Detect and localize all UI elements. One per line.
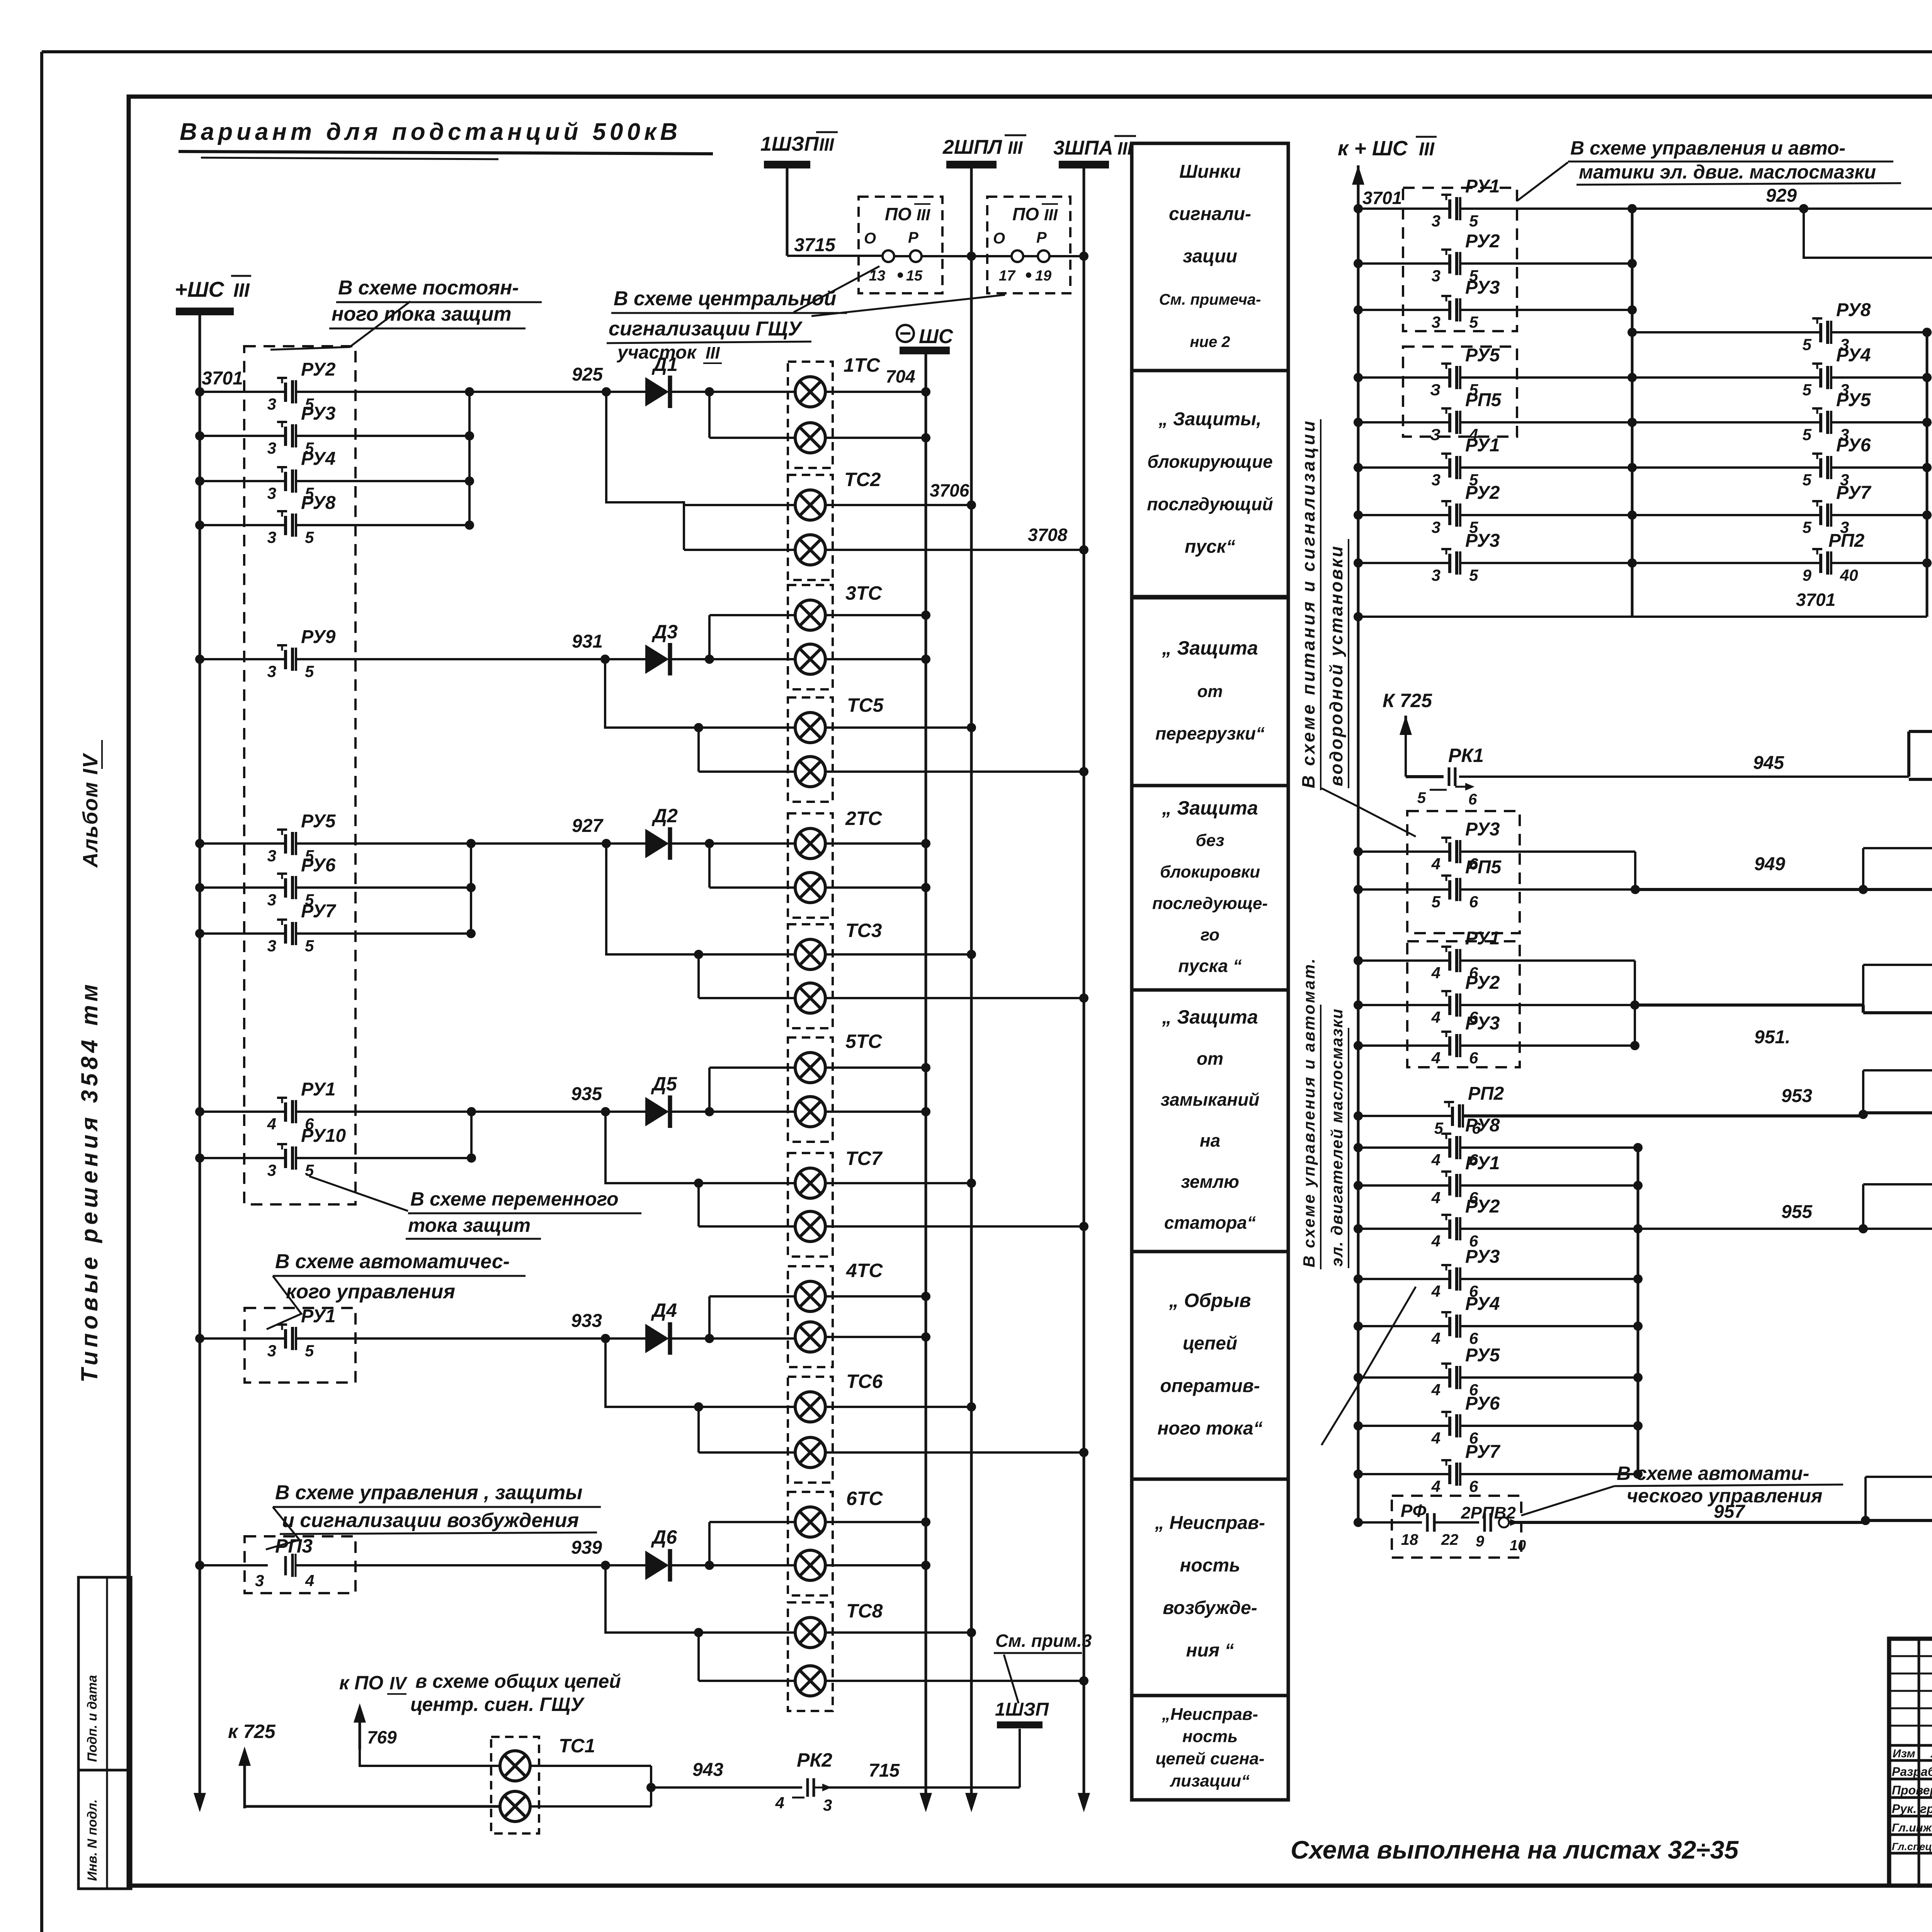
wire 3ТС lamp to bus [825, 614, 926, 616]
svg-text:В схеме управления , защиты: В схеме управления , защиты [275, 1481, 583, 1504]
contact group РУ2/РУ3/РУ4/РУ8 [195, 387, 204, 396]
svg-text:РУ8: РУ8 [1836, 300, 1871, 320]
wire rise to 8ТС upper lamp [1862, 848, 1864, 889]
svg-text:957: 957 [1714, 1502, 1745, 1522]
wire 3708 lamp to bus [825, 549, 1084, 551]
wire 3ТС lamp to bus [825, 658, 926, 660]
svg-text:4: 4 [305, 1571, 314, 1590]
svg-text:блокирующие: блокирующие [1147, 452, 1272, 472]
svg-text:статора“: статора“ [1164, 1213, 1256, 1233]
svg-text:4: 4 [1431, 1381, 1440, 1399]
svg-text:РУ2: РУ2 [1465, 973, 1500, 993]
wire Д3 to lamp 3ТС [669, 658, 796, 660]
svg-text:ШС: ШС [919, 325, 954, 348]
svg-text:РУ5: РУ5 [1465, 1345, 1500, 1366]
signal lamp pair ТС5 [788, 697, 833, 802]
svg-text:17: 17 [999, 268, 1016, 284]
contact РП2 (9-40) [1819, 554, 1822, 573]
svg-text:„ Защита: „ Защита [1162, 797, 1258, 819]
svg-text:от: от [1197, 682, 1223, 701]
legend box: Защита от перегрузки [1132, 598, 1288, 786]
svg-text:935: 935 [571, 1084, 602, 1104]
svg-text:4: 4 [1431, 1232, 1440, 1250]
svg-text:ТС6: ТС6 [846, 1371, 883, 1392]
svg-text:РУ1: РУ1 [1465, 928, 1500, 949]
svg-text:4: 4 [1431, 1282, 1440, 1300]
wire drop to ТС6 lower lamp [697, 1407, 700, 1452]
svg-text:2ТС: 2ТС [845, 808, 882, 829]
svg-text:Р: Р [1036, 229, 1047, 246]
svg-text:Схема выполнена на листах: Схема выполнена на листах 32÷35 [1291, 1835, 1739, 1864]
signal lamp pair ТС1 [491, 1737, 539, 1833]
wire 704 lamp to bus [825, 391, 926, 393]
svg-text:РУ5: РУ5 [1465, 345, 1500, 366]
wire drop to ТС2 lower lamp [683, 505, 685, 550]
svg-text:См. примеча-: См. примеча- [1159, 291, 1261, 308]
svg-text:3ТС: 3ТС [845, 582, 882, 604]
contact РУ8 (5-3) [1632, 331, 1821, 333]
svg-text:III: III [1419, 139, 1435, 160]
wire rise to 12ТС upper lamp [1864, 1477, 1867, 1520]
svg-text:Инв. N подл.: Инв. N подл. [85, 1799, 100, 1881]
svg-text:РП2: РП2 [1828, 531, 1865, 551]
wire after second test block [1023, 255, 1038, 257]
wire rise to 11ТС upper lamp [1862, 1184, 1864, 1229]
svg-text:18: 18 [1401, 1531, 1418, 1548]
svg-text:6: 6 [1469, 1477, 1478, 1495]
svg-text:5: 5 [305, 937, 314, 955]
svg-text:„ Защита: „ Защита [1162, 1006, 1258, 1028]
join vertical (right, to 3701) [1926, 332, 1929, 617]
svg-text:19: 19 [1035, 268, 1051, 284]
wire rise to 6ТС upper lamp [708, 1522, 711, 1565]
test block ПО III (first) [859, 197, 942, 293]
wire 2ТС lamp to bus [825, 842, 926, 845]
node on 2ШПЛ at 3715 [967, 252, 976, 261]
svg-text:3701: 3701 [1796, 590, 1835, 610]
dashed outline: РУ5/РП5 (верх) [1403, 347, 1517, 437]
wire drop to 1ТС lower lamp [708, 392, 711, 438]
wire ТС6 lamp to bus [825, 1406, 971, 1408]
contact РП5 (З-4) [1354, 418, 1363, 427]
svg-text:4: 4 [1431, 1049, 1440, 1067]
svg-text:блокировки: блокировки [1160, 862, 1260, 881]
svg-text:10: 10 [1510, 1537, 1526, 1554]
svg-text:Р: Р [908, 229, 918, 246]
svg-text:951.: 951. [1754, 1027, 1790, 1048]
wire between test blocks [894, 255, 910, 257]
dashed outline: РУ1/РУ2/РУ3 (водород) [1407, 941, 1520, 1067]
signal lamp pair 6ТС [788, 1492, 833, 1595]
svg-text:5: 5 [1803, 335, 1812, 354]
svg-text:В схеме управления и автомат.: В схеме управления и автомат. [1300, 957, 1318, 1267]
leader to РУ5 (водородная) [1321, 788, 1416, 837]
svg-text:ТС3: ТС3 [845, 920, 882, 941]
wire drop to 2ТС lower lamp [708, 844, 711, 888]
svg-text:5: 5 [1469, 212, 1478, 230]
signal lamp pair ТС7 [788, 1153, 833, 1257]
dashed outline: схема постоянного тока защит [244, 346, 355, 1204]
svg-text:5ТС: 5ТС [845, 1031, 882, 1052]
svg-text:Подп. и дата: Подп. и дата [85, 1675, 100, 1762]
svg-text:3: 3 [267, 847, 276, 865]
svg-text:Шинки: Шинки [1179, 162, 1241, 182]
svg-text:1ШЗП: 1ШЗП [995, 1699, 1049, 1720]
wire Д6 to lamp 6ТС [669, 1564, 796, 1566]
svg-text:Д5: Д5 [651, 1073, 677, 1095]
wire 951 [1635, 1003, 1863, 1007]
svg-text:3701: 3701 [1362, 188, 1402, 208]
wire drop to ТС2 (pre-diode) [606, 392, 796, 505]
wire drop to ТС5 lower lamp [697, 728, 700, 772]
wire drop to ТС7 (pre-diode) [605, 1112, 796, 1183]
contact РУ3 (4-6, масло) [1354, 1274, 1363, 1284]
signal lamp pair 5ТС [788, 1037, 833, 1142]
signal lamp pair ТС2 [788, 475, 833, 580]
svg-text:Разраб.: Разраб. [1892, 1765, 1932, 1779]
svg-text:Гл.спец.отд: Гл.спец.отд [1892, 1841, 1932, 1852]
bus -ШС (vertical) [925, 354, 927, 1807]
svg-text:водородной установки: водородной установки [1326, 545, 1346, 786]
svg-text:III: III [1008, 138, 1023, 158]
contact РУ6 (4-6, масло) [1354, 1421, 1363, 1430]
svg-text:939: 939 [571, 1537, 602, 1558]
svg-text:См. прим.3: См. прим.3 [995, 1631, 1092, 1651]
wire rise to 5ТС upper lamp [708, 1068, 711, 1112]
svg-text:III: III [706, 344, 720, 362]
svg-text:РУ6: РУ6 [1465, 1393, 1500, 1414]
join vertical (масло ladder) [1637, 1148, 1639, 1474]
svg-text:6: 6 [1469, 1049, 1478, 1067]
svg-text:В схеме переменного: В схеме переменного [410, 1188, 619, 1210]
wire ТС3 lamp to bus [825, 953, 971, 956]
svg-text:ТС5: ТС5 [847, 694, 884, 716]
svg-text:РК1: РК1 [1448, 745, 1484, 766]
svg-text:З: З [1430, 425, 1440, 444]
legend box: Неисправность цепей сигнализации [1132, 1696, 1288, 1800]
svg-text:3: 3 [267, 395, 276, 413]
signal lamp pair 2ТС [788, 813, 833, 918]
leader to РУ (масло) [1321, 1287, 1416, 1445]
svg-text:ния “: ния “ [1186, 1640, 1234, 1661]
wire drop to ТС5 (pre-diode) [605, 659, 796, 728]
dashed outline: РФ/2РПВ2 [1392, 1496, 1521, 1558]
svg-text:15: 15 [906, 268, 923, 284]
svg-text:4: 4 [1431, 1329, 1440, 1347]
svg-text:3715: 3715 [794, 235, 836, 255]
svg-text:925: 925 [572, 364, 603, 385]
svg-text:40: 40 [1840, 566, 1858, 584]
svg-text:ние 2: ние 2 [1190, 333, 1230, 350]
bus +ШС III (vertical) [199, 315, 201, 1807]
svg-text:РУ10: РУ10 [301, 1126, 346, 1146]
wire ТС8 lamp to bus [825, 1631, 971, 1634]
svg-text:РУ5: РУ5 [301, 811, 336, 832]
svg-text:943: 943 [692, 1760, 723, 1780]
svg-text:955: 955 [1781, 1202, 1813, 1222]
svg-text:ТС1: ТС1 [559, 1735, 595, 1757]
svg-text:О: О [993, 230, 1005, 247]
bus -ШС arrow [925, 1789, 927, 1807]
svg-text:В схеме постоян-: В схеме постоян- [338, 277, 519, 299]
contact РУ3 (прав. верх) [1354, 305, 1363, 315]
svg-text:4: 4 [1431, 1477, 1440, 1495]
contact РУ2 (4-6, водород) [1354, 1000, 1363, 1010]
svg-text:РУ8: РУ8 [301, 493, 336, 513]
sheet outer border [42, 50, 1932, 53]
legend box: Неисправность возбуждения [1132, 1479, 1288, 1696]
svg-text:3: 3 [267, 891, 276, 909]
svg-text:2ШПЛ: 2ШПЛ [942, 136, 1002, 158]
wire 2ТС lamp to bus [825, 886, 926, 889]
contact РУ6 (5-3) [1819, 458, 1822, 478]
contact РП5 (5-6) [1354, 885, 1363, 894]
svg-text:4: 4 [1431, 855, 1440, 873]
wire drop to ТС8 lower lamp [697, 1633, 700, 1681]
svg-text:пуск“: пуск“ [1185, 537, 1235, 557]
contact РУ4 (5-3) [1819, 368, 1822, 388]
svg-text:РУ3: РУ3 [1465, 1247, 1500, 1267]
contact РУ9 [195, 655, 204, 664]
svg-text:РУ4: РУ4 [1465, 1294, 1500, 1314]
svg-text:ПО: ПО [885, 204, 912, 224]
svg-text:сигнали-: сигнали- [1169, 204, 1251, 224]
contact РУ2 (прав. верх) [1354, 259, 1363, 268]
svg-text:3: 3 [267, 937, 276, 955]
svg-text:последующе-: последующе- [1152, 894, 1268, 913]
svg-text:ТС2: ТС2 [844, 469, 881, 490]
svg-text:5: 5 [1417, 789, 1426, 806]
svg-text:к + ШС: к + ШС [1338, 137, 1408, 160]
svg-text:„Неисправ-: „Неисправ- [1162, 1705, 1258, 1724]
svg-text:3: 3 [1432, 518, 1440, 536]
svg-text:927: 927 [572, 816, 604, 836]
svg-text:5: 5 [1469, 313, 1478, 331]
legend box: Шинки сигнализации [1132, 143, 1288, 371]
svg-text:4: 4 [1431, 1429, 1440, 1447]
join vertical (top ladder) [1631, 209, 1634, 617]
svg-text:В схеме питания и сигнализации: В схеме питания и сигнализации [1298, 418, 1318, 788]
svg-text:РУ1: РУ1 [1465, 1153, 1500, 1173]
bus 3ШПА III arrow [1083, 1789, 1085, 1807]
test block ПО III (second) [987, 197, 1070, 293]
svg-text:Рук. гр.: Рук. гр. [1892, 1802, 1932, 1816]
svg-text:929: 929 [1766, 185, 1797, 206]
svg-text:ность: ность [1180, 1555, 1240, 1576]
wire 1ТС lamp to bus [825, 437, 926, 439]
svg-text:РК2: РК2 [797, 1749, 832, 1771]
bus 2ШПЛ III arrow [970, 1789, 973, 1807]
svg-text:РУ4: РУ4 [1836, 345, 1871, 366]
wire rise to 10ТС upper lamp [1862, 1070, 1864, 1114]
wires top-ladder right segments [1831, 376, 1927, 379]
wire ТС7 lamp to bus [825, 1182, 971, 1184]
svg-text:без: без [1196, 831, 1224, 850]
contact РУ1 (4-6, водород) [1354, 956, 1363, 965]
svg-text:возбужде-: возбужде- [1163, 1598, 1257, 1618]
wire rise to 9ТС upper lamp [1862, 965, 1864, 1005]
join РУ3/РП5 [1634, 852, 1636, 889]
svg-text:3: 3 [267, 1342, 276, 1360]
svg-text:III: III [819, 134, 835, 155]
contact РУ7 (4-6, масло) [1354, 1469, 1363, 1479]
svg-text:Д3: Д3 [651, 621, 678, 643]
svg-text:3: 3 [1432, 471, 1440, 489]
svg-text:РУ2: РУ2 [1465, 231, 1500, 252]
svg-text:5: 5 [305, 528, 314, 546]
svg-text:на: на [1200, 1131, 1220, 1151]
svg-text:лизации“: лизации“ [1170, 1771, 1250, 1790]
svg-text:+ШС: +ШС [175, 277, 225, 301]
join РУ1/РУ2/РУ3 (водород) [1634, 961, 1636, 1046]
svg-text:945: 945 [1753, 753, 1784, 773]
contact РУ8 (4-6, масло) [1354, 1143, 1363, 1152]
bus +ШС III arrow [199, 1789, 201, 1807]
wire Д2 to lamp 2ТС [669, 842, 796, 845]
wire 955 [1638, 1228, 1863, 1230]
svg-text:Д1: Д1 [651, 354, 678, 375]
wire 769 to ТС1 upper lamp [360, 1750, 500, 1766]
contact РУ3 (4-6) [1354, 847, 1363, 856]
svg-text:РУ3: РУ3 [1465, 819, 1500, 840]
svg-text:1ТС: 1ТС [844, 354, 880, 376]
svg-text:К 725: К 725 [1383, 690, 1432, 711]
svg-text:Д4: Д4 [651, 1299, 677, 1321]
svg-text:„ Неисправ-: „ Неисправ- [1155, 1513, 1265, 1533]
svg-text:„ Обрыв: „ Обрыв [1168, 1290, 1251, 1311]
wire ТС1 to РК2 [530, 1765, 651, 1767]
svg-text:5: 5 [1803, 471, 1812, 489]
svg-text:3ШПА: 3ШПА [1053, 137, 1113, 159]
wire to ТС1 lower lamp [245, 1805, 500, 1808]
svg-text:5: 5 [1432, 893, 1441, 911]
svg-text:пуска “: пуска “ [1178, 956, 1242, 976]
signal lamp pair 4ТС [788, 1266, 833, 1367]
svg-text:замыканий: замыканий [1161, 1089, 1260, 1109]
wire Д4 to lamp 4ТС [669, 1337, 796, 1340]
contact РУ1 (авт.) [195, 1334, 204, 1343]
wire 5ТС lamp to bus [825, 1111, 926, 1113]
signal lamp pair ТС6 [788, 1377, 833, 1483]
wire drop to ТС4 lower lamp [1804, 209, 1932, 258]
wire 6ТС lamp to bus [825, 1564, 926, 1566]
svg-text:953: 953 [1781, 1086, 1812, 1106]
svg-text:сигнализации ГЩУ: сигнализации ГЩУ [609, 318, 803, 340]
svg-text:землю: землю [1181, 1172, 1239, 1192]
svg-text:4: 4 [1431, 964, 1440, 982]
svg-text:III: III [1044, 206, 1058, 224]
svg-text:РП5: РП5 [1465, 857, 1502, 878]
svg-text:769: 769 [367, 1727, 397, 1747]
wire Д1 to lamp 1ТС [669, 391, 796, 393]
svg-text:ПО: ПО [1012, 204, 1039, 224]
svg-text:РП3: РП3 [275, 1535, 313, 1557]
svg-text:цепей: цепей [1183, 1333, 1237, 1354]
svg-text:5: 5 [1469, 566, 1478, 584]
svg-text:зации: зации [1183, 246, 1237, 267]
wire drop to ТС3 (pre-diode) [606, 844, 796, 954]
svg-text:Типовые решения 3584 тм: Типовые решения 3584 тм [77, 980, 102, 1383]
svg-text:матики эл. двиг. маслосмазки: матики эл. двиг. маслосмазки [1579, 161, 1876, 183]
wire 4ТС lamp to bus [825, 1336, 926, 1338]
svg-text:22: 22 [1441, 1531, 1459, 1548]
contact РУ2 (4-6, масло) [1354, 1224, 1363, 1233]
svg-text:3: 3 [1432, 267, 1440, 285]
margin box: Подп. и дата / Инв. N подл. [78, 1577, 131, 1889]
wire 3706 lamp to bus [825, 504, 971, 506]
contact РП2 (5-6) [1354, 1111, 1363, 1121]
svg-text:ного тока“: ного тока“ [1157, 1418, 1262, 1439]
wire drop to ТС6 (pre-diode) [605, 1338, 796, 1407]
contact РУ5 прав (5-3) [1819, 413, 1822, 432]
svg-text:5: 5 [305, 662, 314, 680]
legend box: Защиты блокирующие последующий пуск [1132, 371, 1288, 597]
signal lamp pair ТС3 [788, 924, 833, 1028]
dashed outline: РУ1 (авт. управления) [245, 1308, 355, 1383]
wire drop to ТС3 lower lamp [697, 954, 700, 998]
wire rise to 3ТС upper lamp [708, 615, 711, 659]
svg-text:4: 4 [1431, 1189, 1440, 1207]
svg-text:4: 4 [267, 1115, 276, 1133]
svg-text:„ Защиты,: „ Защиты, [1158, 409, 1261, 430]
svg-text:IV: IV [389, 1673, 408, 1693]
bus 1ШЗП III drop [786, 168, 789, 256]
svg-text:6: 6 [1468, 791, 1477, 808]
bus 2ШПЛ III (vertical) [970, 168, 973, 1807]
svg-text:РУ7: РУ7 [301, 901, 337, 922]
legend box: Обрыв цепей оперативного тока [1132, 1252, 1288, 1479]
wire rise to 4ТС upper lamp [708, 1296, 711, 1338]
wire to diode Д2 [471, 842, 648, 845]
arrow 769 to ПОIV [359, 1709, 361, 1750]
svg-text:3: 3 [1432, 566, 1440, 584]
contact РУ3 (ниж. З-5) [1354, 558, 1363, 568]
wire Д5 to lamp 5ТС [669, 1111, 796, 1113]
svg-text:РУ3: РУ3 [1465, 531, 1500, 551]
svg-text:центр. сигн. ГЩУ: центр. сигн. ГЩУ [410, 1694, 585, 1715]
bus к+ШС III (vertical) [1357, 171, 1360, 1522]
svg-text:6: 6 [1469, 1329, 1478, 1347]
svg-text:В схеме автоматичес-: В схеме автоматичес- [275, 1250, 510, 1273]
svg-text:РП5: РП5 [1465, 390, 1502, 410]
svg-text:III: III [917, 206, 930, 224]
svg-text:РУ3: РУ3 [1465, 277, 1500, 298]
svg-text:РФ: РФ [1401, 1501, 1427, 1521]
svg-text:4: 4 [1431, 1151, 1440, 1169]
svg-text:от: от [1197, 1048, 1223, 1068]
svg-text:3: 3 [267, 662, 276, 680]
svg-text:5: 5 [1803, 425, 1812, 444]
wire ТС3 lamp to bus [825, 997, 1084, 999]
svg-text:704: 704 [886, 366, 915, 386]
svg-text:ность: ность [1182, 1727, 1238, 1746]
svg-text:ного тока защит: ного тока защит [332, 303, 512, 325]
contact РФ (18-22) [1354, 1518, 1363, 1527]
contact РУ1 (ниж. З-5) [1354, 463, 1363, 472]
svg-text:III: III [233, 279, 250, 301]
svg-text:Провер.: Провер. [1892, 1783, 1932, 1797]
svg-text:6ТС: 6ТС [846, 1488, 883, 1509]
svg-text:и сигнализации возбуждения: и сигнализации возбуждения [282, 1509, 579, 1532]
svg-text:Альбом IV: Альбом IV [79, 753, 102, 868]
svg-text:ТС7: ТС7 [845, 1148, 883, 1169]
contact РУ7 (5-3) [1819, 506, 1822, 525]
node on 3ШПА at 3715 [1079, 252, 1088, 261]
contact РУ4 (4-6, масло) [1354, 1321, 1363, 1331]
svg-text:кого управления: кого управления [286, 1281, 455, 1303]
wire ТС5 lamp to bus [825, 770, 1084, 773]
svg-text:эл. двигателей маслосмазки: эл. двигателей маслосмазки [1328, 1008, 1346, 1267]
